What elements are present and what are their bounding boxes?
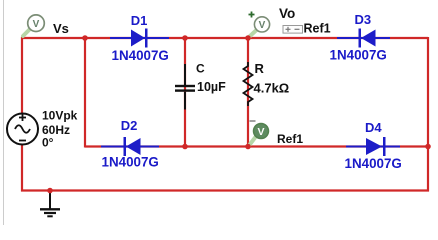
svg-text:V: V (259, 20, 266, 31)
svg-text:V: V (33, 19, 40, 30)
svg-text:1N4007G: 1N4007G (345, 156, 402, 171)
svg-text:1N4007G: 1N4007G (330, 48, 387, 63)
svg-text:1N4007G: 1N4007G (112, 48, 169, 63)
svg-text:D2: D2 (121, 118, 138, 133)
svg-text:Vo: Vo (279, 6, 295, 21)
svg-text:V: V (257, 126, 264, 138)
svg-text:10Vpk: 10Vpk (42, 109, 78, 123)
svg-text:4.7kΩ: 4.7kΩ (254, 80, 290, 95)
svg-text:Vs: Vs (53, 21, 69, 36)
svg-text:R: R (255, 61, 265, 76)
svg-text:D1: D1 (131, 13, 148, 28)
svg-text:D4: D4 (365, 120, 382, 135)
svg-text:C: C (196, 62, 205, 76)
svg-text:Ref1: Ref1 (304, 22, 331, 36)
svg-text:D3: D3 (355, 12, 372, 27)
svg-text:10µF: 10µF (197, 80, 226, 94)
svg-text:0°: 0° (42, 136, 54, 150)
svg-text:Ref1: Ref1 (277, 132, 303, 146)
svg-text:1N4007G: 1N4007G (102, 155, 159, 170)
